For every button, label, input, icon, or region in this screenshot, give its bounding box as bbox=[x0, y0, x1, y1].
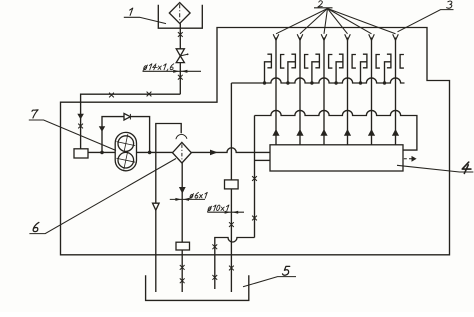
tank: bottom fuel tank (item 5) bbox=[146, 275, 249, 300]
arrowhead onto injector line bbox=[297, 34, 303, 40]
injector 1 right bracket bbox=[281, 55, 285, 69]
wire: horizontal feed pipe to pump inlet bbox=[81, 94, 181, 149]
wire: overflow drain from bypass to bottom tank bbox=[155, 152, 157, 292]
pump block: high-pressure injection pump (item 4) bbox=[270, 145, 403, 171]
label 7 bbox=[32, 110, 38, 118]
injector line 2: high-pressure pipe to injector bbox=[299, 38, 301, 145]
arrowhead onto injector line bbox=[393, 34, 399, 40]
arrowhead onto injector line bbox=[369, 34, 375, 40]
pipe joint x-mark bbox=[147, 92, 152, 97]
pipe joint x-mark bbox=[178, 32, 183, 37]
pipe joint x-mark bbox=[229, 222, 234, 227]
tank: top fuel tank (item 1 container) bbox=[158, 5, 202, 28]
leader from label 2 to injector bbox=[328, 9, 396, 34]
wire: leak-off drain from injector rail to bottom tank bbox=[230, 83, 232, 292]
leader from label 2 to injector bbox=[324, 9, 328, 34]
junction node on leak-off rail bbox=[334, 81, 337, 84]
injector 2 left bracket bbox=[291, 54, 295, 68]
leader from label 2 to injector bbox=[300, 9, 328, 34]
injector 1 left bracket bbox=[267, 54, 271, 68]
pipe joint x-mark bbox=[252, 176, 257, 181]
wire: main supply line from pump inlet block to HP pump (item 4) bbox=[88, 148, 270, 153]
pipe joint x-mark bbox=[252, 216, 257, 221]
spring-bypass arc above filter bbox=[176, 134, 187, 139]
relief triangle on bypass left leg bbox=[99, 126, 105, 131]
injector line 6: high-pressure pipe to injector bbox=[395, 38, 397, 145]
filter F2: fine fuel filter (item 6) bbox=[173, 142, 192, 163]
leak-off step wire to injector 1 bbox=[265, 62, 272, 83]
label 2 bbox=[318, 1, 323, 7]
wire: relief bypass line over pump bbox=[102, 117, 150, 153]
pipe joint x-mark bbox=[180, 278, 185, 283]
leak-off step wire to injector 6 bbox=[385, 62, 391, 83]
leak-off step wire to injector 3 bbox=[312, 62, 320, 83]
leader from label 2 to injector bbox=[328, 9, 348, 34]
junction node on leak-off rail bbox=[263, 81, 266, 84]
check direction triangle on pump-feed drop bbox=[77, 114, 84, 120]
wire: return rail drop to HP pump and drain tee bbox=[254, 116, 256, 238]
injector line 1: high-pressure pipe to injector bbox=[275, 38, 277, 145]
injector 4 right bracket bbox=[352, 55, 356, 69]
injector 4 left bracket bbox=[339, 54, 343, 68]
junction node on leak-off rail bbox=[359, 81, 362, 84]
injector 3 right bracket bbox=[329, 55, 333, 69]
pipe joint x-mark bbox=[180, 265, 185, 270]
filter F1: diamond strainer in top tank bbox=[169, 3, 190, 24]
leak-off step wire to injector 4 bbox=[336, 62, 343, 83]
leak-off step wire to injector 2 bbox=[288, 62, 296, 83]
wire: filter bypass loop bbox=[156, 124, 181, 153]
injector line 5: high-pressure pipe to injector bbox=[371, 38, 373, 145]
pipe joint x-mark bbox=[178, 75, 183, 80]
junction node on leak-off rail bbox=[383, 81, 386, 84]
check valve CV1 in pump bypass bbox=[124, 113, 130, 120]
injector 6 left bracket bbox=[387, 54, 391, 68]
junction node at pump outlet tee bbox=[148, 151, 152, 155]
dimension label: ø10×1 pipe size bbox=[208, 205, 229, 211]
flow triangle into injector 3 bbox=[320, 129, 327, 136]
wire: pipe below valve bbox=[179, 63, 181, 95]
rail: leak-off manifold line (upper) with crossover humps bbox=[231, 78, 404, 83]
label 6 bbox=[33, 222, 39, 231]
fitting block on leak-off drain bbox=[225, 180, 239, 189]
flow triangle on filter drain bbox=[179, 187, 186, 194]
flow triangle into injector 1 bbox=[272, 129, 279, 136]
arrowhead onto injector line bbox=[273, 34, 279, 40]
label 4 bbox=[462, 162, 471, 173]
leader from label 2 to injector bbox=[276, 9, 328, 34]
wire: outlet pipe from top tank bbox=[179, 23, 181, 49]
wire: filter sediment drain to bottom tank bbox=[181, 163, 183, 292]
dimension label: ø6×1 pipe size bbox=[189, 192, 207, 198]
pipe joint x-mark bbox=[212, 244, 217, 249]
label 3 bbox=[447, 1, 452, 8]
flow triangle into injector 6 bbox=[392, 129, 399, 136]
injector 6 right bracket bbox=[400, 55, 404, 69]
flow triangle into injector 2 bbox=[296, 129, 303, 136]
damper/fitting block at pump inlet bbox=[74, 149, 88, 158]
leak-off step wire to injector 5 bbox=[361, 62, 367, 83]
open triangle (free drain) symbol bbox=[153, 203, 160, 210]
wire: bottom connector with crossover hump bbox=[215, 238, 255, 290]
junction node at pump inlet tee bbox=[100, 151, 104, 155]
fitting block on filter drain bbox=[176, 242, 190, 250]
injector line 3: high-pressure pipe to injector bbox=[323, 38, 325, 145]
junction node on leak-off rail bbox=[286, 81, 289, 84]
injector 5 left bracket bbox=[363, 54, 367, 68]
rail: return manifold line (lower) with crossover humps, into pump block bbox=[255, 110, 417, 150]
dashed output arrow at right of pump block bbox=[404, 158, 412, 160]
junction node on leak-off rail bbox=[310, 81, 313, 84]
pipe joint x-mark bbox=[78, 124, 83, 129]
flow triangle into injector 4 bbox=[344, 129, 351, 136]
leader from label 2 to injector bbox=[328, 9, 372, 34]
arrowhead onto injector line bbox=[345, 34, 351, 40]
flow arrow on main supply line bbox=[210, 150, 218, 156]
pipe joint x-mark bbox=[109, 93, 114, 98]
pump P1: gear fuel pump (item 7) bbox=[115, 132, 136, 170]
label 1 bbox=[130, 8, 133, 15]
valve V1: shut-off valve (bowtie) under top tank bbox=[176, 49, 184, 56]
pipe joint x-mark bbox=[229, 266, 234, 271]
flow triangle into injector 5 bbox=[368, 129, 375, 136]
injector 3 left bracket bbox=[315, 54, 319, 68]
label 5 bbox=[283, 266, 290, 275]
injector 5 right bracket bbox=[376, 55, 380, 69]
injector 2 right bracket bbox=[305, 55, 309, 69]
injector line 4: high-pressure pipe to injector bbox=[347, 38, 349, 145]
pipe joint x-mark bbox=[212, 275, 217, 280]
wire: outer circulation loop / engine boundary bbox=[61, 28, 450, 255]
arrowhead onto injector line bbox=[321, 34, 327, 40]
dimension label: ø14×1,6 pipe size bbox=[143, 64, 174, 71]
